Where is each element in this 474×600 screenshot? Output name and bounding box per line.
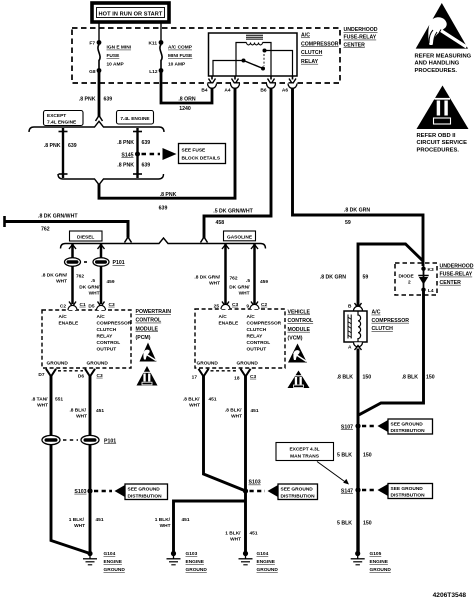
- svg-text:.5: .5: [246, 278, 250, 284]
- wire .8 DK GRN/WHT 762 (diesel branch to PCM C2): [41, 244, 84, 305]
- svg-text:K11: K11: [148, 41, 157, 47]
- svg-text:ENGINE: ENGINE: [186, 559, 205, 565]
- svg-text:.8 BLK: .8 BLK: [337, 375, 354, 381]
- svg-text:SEE FUSE: SEE FUSE: [182, 147, 207, 153]
- svg-text:.5: .5: [91, 278, 95, 284]
- svg-text:C3: C3: [232, 302, 238, 308]
- VCM pin 18 (connector C3): [234, 369, 256, 382]
- svg-text:VEHICLE: VEHICLE: [288, 310, 311, 316]
- VCM inner label A/C COMPRESSOR CLUTCH RELAY CONTROL OUTPUT: [247, 314, 282, 353]
- svg-text:.8 BLK/: .8 BLK/: [69, 408, 86, 414]
- svg-text:451: 451: [209, 397, 217, 403]
- svg-text:ENGINE: ENGINE: [257, 559, 276, 565]
- svg-text:CENTER: CENTER: [440, 280, 462, 286]
- svg-text:ENABLE: ENABLE: [59, 321, 80, 327]
- wire branch .8 DK GRN 59 to compressor clutch: [320, 244, 423, 307]
- splice S107: [341, 423, 361, 430]
- svg-text:FUSE: FUSE: [107, 53, 121, 59]
- svg-text:B: B: [348, 303, 352, 309]
- splice S103 (left): [74, 488, 92, 494]
- svg-text:SEE GROUND: SEE GROUND: [281, 487, 314, 493]
- dashed link between PCM ground pins: [58, 370, 83, 372]
- svg-text:.8 DK GRN/WHT: .8 DK GRN/WHT: [38, 214, 78, 220]
- svg-text:SEE GROUND: SEE GROUND: [391, 421, 424, 427]
- svg-text:451: 451: [251, 408, 259, 414]
- svg-text:P101: P101: [104, 438, 116, 444]
- svg-text:POWERTRAIN: POWERTRAIN: [136, 309, 172, 315]
- svg-text:UNDERHOOD: UNDERHOOD: [440, 264, 474, 270]
- svg-text:GROUND: GROUND: [186, 567, 208, 573]
- svg-text:GROUND: GROUND: [370, 567, 392, 573]
- fuse K11/L12 A/C COMP MINI FUSE 10 AMP: [148, 40, 193, 75]
- svg-text:CONTROL: CONTROL: [288, 318, 314, 324]
- svg-text:CONTROL: CONTROL: [136, 318, 162, 324]
- svg-text:CLUTCH: CLUTCH: [372, 326, 394, 332]
- svg-text:18: 18: [234, 375, 240, 381]
- wire 1 BLK/WHT 451 (S103 branch to G103): [155, 501, 246, 554]
- svg-text:150: 150: [363, 375, 372, 381]
- svg-text:D5: D5: [88, 304, 94, 310]
- label POWERTRAIN CONTROL MODULE (PCM): [136, 309, 172, 341]
- svg-text:DISTRIBUTION: DISTRIBUTION: [391, 493, 426, 499]
- label UNDERHOOD FUSE-RELAY CENTER (top): [344, 27, 378, 48]
- svg-text:1240: 1240: [179, 106, 191, 112]
- svg-text:WHT: WHT: [89, 291, 100, 297]
- svg-text:59: 59: [345, 220, 351, 226]
- svg-text:S103: S103: [249, 480, 261, 486]
- svg-text:150: 150: [363, 520, 372, 526]
- branch wire .8 PNK 639 (except 7.4L): [44, 128, 77, 178]
- svg-text:17: 17: [192, 374, 198, 380]
- PCM dashed box: [42, 310, 131, 368]
- label VEHICLE CONTROL MODULE (VCM): [288, 310, 314, 342]
- svg-text:COMPRESSOR: COMPRESSOR: [301, 41, 339, 47]
- svg-text:WHT: WHT: [230, 537, 241, 543]
- wire .8 TAN/WHT 551 (PCM D7 down): [31, 376, 90, 554]
- wire .8 ORN 1240 (fuse L12 to relay B4): [161, 71, 212, 113]
- option box EXCEPT 7.4L ENGINE: [44, 111, 84, 126]
- svg-text:DK GRN/: DK GRN/: [229, 285, 250, 291]
- label UNDERHOOD FUSE-RELAY CENTER (diode): [440, 264, 474, 286]
- svg-text:CLUTCH: CLUTCH: [247, 327, 267, 333]
- callout SEE GROUND DISTRIBUTION (S107): [362, 419, 433, 434]
- svg-text:10 AMP: 10 AMP: [168, 62, 186, 68]
- svg-text:762: 762: [230, 276, 238, 282]
- wire 5 BLK 150 (S147 to G105): [337, 490, 372, 553]
- connector P101 (upper pair): [65, 258, 125, 267]
- svg-text:.8 PNK: .8 PNK: [79, 97, 96, 103]
- callout SEE GROUND DISTRIBUTION (S147): [362, 484, 433, 499]
- ground G104 ENGINE GROUND (left): [83, 551, 125, 573]
- svg-text:CONTROL: CONTROL: [247, 340, 271, 346]
- wire .8 BLK/WHT 451 (VCM 18 to S103 mid): [225, 376, 259, 554]
- relay U1 A/C COMPRESSOR CLUTCH RELAY box: [209, 33, 298, 76]
- pointer arrow to S147: [317, 462, 349, 485]
- svg-text:.8 PNK: .8 PNK: [160, 192, 177, 198]
- splice S147: [341, 487, 361, 494]
- svg-text:RELAY: RELAY: [247, 334, 264, 340]
- ESD handling triangle (top right): [416, 3, 468, 49]
- svg-text:551: 551: [55, 397, 63, 403]
- svg-text:S147: S147: [341, 488, 353, 494]
- svg-text:GROUND: GROUND: [237, 361, 259, 367]
- svg-text:GROUND: GROUND: [47, 361, 69, 367]
- wire .8 PNK 639 (merge to relay pin A4): [99, 88, 235, 212]
- svg-text:639: 639: [104, 97, 113, 103]
- relay coil: [236, 35, 271, 76]
- svg-text:B4: B4: [201, 88, 207, 94]
- svg-text:ENABLE: ENABLE: [219, 321, 240, 327]
- svg-text:GROUND: GROUND: [104, 567, 126, 573]
- svg-text:DISTRIBUTION: DISTRIBUTION: [391, 428, 426, 434]
- svg-text:G105: G105: [370, 551, 382, 557]
- svg-text:.8 BLK: .8 BLK: [402, 375, 419, 381]
- svg-text:.8 TAN/: .8 TAN/: [31, 397, 48, 403]
- svg-text:GROUND: GROUND: [197, 361, 219, 367]
- svg-text:.8 DK GRN/: .8 DK GRN/: [194, 275, 220, 281]
- splice S103 (mid): [243, 480, 261, 494]
- svg-text:639: 639: [68, 143, 77, 149]
- svg-text:MAN TRANS: MAN TRANS: [290, 453, 320, 459]
- svg-text:REFER OBD II: REFER OBD II: [417, 133, 456, 139]
- svg-text:.8 DK GRN/: .8 DK GRN/: [41, 273, 67, 279]
- svg-text:S107: S107: [341, 424, 353, 430]
- svg-text:D6: D6: [78, 373, 84, 379]
- power source box HOT IN RUN OR START: [92, 3, 169, 22]
- PCM pin C2 (connector C1): [60, 302, 86, 311]
- option box EXCEPT 4.3L MAN TRANS: [276, 443, 334, 461]
- svg-text:150: 150: [363, 452, 372, 458]
- svg-text:DISTRIBUTION: DISTRIBUTION: [281, 493, 316, 499]
- svg-text:C3: C3: [109, 302, 115, 308]
- svg-text:CONTROL: CONTROL: [97, 340, 121, 346]
- VCM pin 9 (connector C2): [246, 302, 267, 310]
- wire .8 DK GRN/WHT 762 (gasoline branch to VCM 25): [194, 244, 237, 305]
- svg-text:COMPRESSOR: COMPRESSOR: [97, 321, 132, 327]
- svg-text:451: 451: [96, 517, 104, 523]
- svg-text:.8 PNK: .8 PNK: [44, 143, 61, 149]
- wire: feed to fuse F7: [98, 22, 100, 42]
- svg-text:UNDERHOOD: UNDERHOOD: [344, 27, 378, 33]
- svg-text:G8: G8: [89, 69, 96, 75]
- wire .8 BLK/WHT 451 (PCM D6 down to S103): [69, 376, 104, 554]
- svg-text:G104: G104: [104, 551, 116, 557]
- merge bracket (engine options): [58, 174, 164, 185]
- svg-text:FUSE-RELAY: FUSE-RELAY: [440, 272, 473, 278]
- svg-text:762: 762: [76, 274, 84, 280]
- svg-text:.8 PNK: .8 PNK: [117, 163, 134, 169]
- svg-text:639: 639: [142, 140, 151, 146]
- svg-text:10 AMP: 10 AMP: [107, 62, 125, 68]
- wire .8 BLK 150 (compressor A to S107): [337, 349, 372, 427]
- ESD warning triangle (VCM): [288, 344, 307, 363]
- svg-text:S103: S103: [74, 489, 86, 495]
- VCM dashed box: [195, 309, 285, 368]
- svg-text:WHT: WHT: [231, 414, 242, 420]
- svg-text:BLOCK DETAILS: BLOCK DETAILS: [182, 155, 221, 161]
- VCM pin 17: [192, 369, 209, 381]
- svg-text:A/C: A/C: [301, 33, 310, 39]
- svg-text:(VCM): (VCM): [288, 336, 303, 342]
- svg-text:WHT: WHT: [37, 403, 48, 409]
- svg-text:CENTER: CENTER: [344, 42, 366, 48]
- svg-text:DISTRIBUTION: DISTRIBUTION: [128, 493, 163, 499]
- svg-text:EXCEPT 4.3L: EXCEPT 4.3L: [289, 446, 319, 452]
- svg-text:IGN E MINI: IGN E MINI: [107, 45, 132, 51]
- svg-text:A/C: A/C: [219, 314, 228, 320]
- svg-text:1 BLK/: 1 BLK/: [155, 517, 171, 523]
- svg-text:F7: F7: [89, 41, 95, 47]
- label A/C COMPRESSOR CLUTCH: [372, 310, 410, 332]
- ground G104 ENGINE GROUND (mid): [239, 551, 279, 573]
- svg-text:ENGINE: ENGINE: [370, 559, 389, 565]
- svg-text:A4: A4: [224, 88, 230, 94]
- svg-text:C3: C3: [97, 373, 103, 379]
- svg-text:639: 639: [142, 163, 151, 169]
- svg-text:EXCEPT: EXCEPT: [47, 113, 66, 119]
- callout SEE GROUND DISTRIBUTION (S103 mid): [250, 484, 318, 500]
- wire .5 DK GRN/WHT 459 (diesel branch to PCM D5): [79, 244, 115, 305]
- svg-text:L4: L4: [428, 288, 434, 294]
- svg-text:639: 639: [159, 206, 168, 212]
- underhood fuse-relay center dashed box (top): [72, 28, 340, 83]
- relay switch contacts: [213, 49, 293, 77]
- dashed link between VCM ground pins: [211, 370, 239, 372]
- relay pin B6: [260, 76, 275, 94]
- svg-text:A/C: A/C: [372, 310, 381, 316]
- svg-text:25: 25: [214, 304, 220, 310]
- svg-text:FUSE-RELAY: FUSE-RELAY: [344, 35, 377, 41]
- svg-text:451: 451: [250, 531, 258, 537]
- label A/C COMPRESSOR CLUTCH RELAY: [301, 33, 339, 65]
- svg-text:C3: C3: [250, 374, 256, 380]
- svg-text:4206T3548: 4206T3548: [433, 592, 467, 599]
- wire .8 PNK 639 (fuse G8 down to engine split): [79, 71, 113, 122]
- svg-text:DIESEL: DIESEL: [77, 235, 94, 241]
- relay pin A4: [224, 76, 239, 94]
- PCM pin D6 (connector C3): [78, 369, 103, 380]
- VCM inner label A/C ENABLE: [219, 314, 240, 327]
- relay pin A6: [282, 76, 297, 94]
- svg-text:CIRCUIT SERVICE: CIRCUIT SERVICE: [417, 140, 468, 146]
- svg-text:C2: C2: [60, 304, 66, 310]
- svg-text:451: 451: [182, 517, 190, 523]
- svg-text:G104: G104: [257, 551, 269, 557]
- PCM pin D7: [38, 369, 56, 378]
- svg-text:B6: B6: [260, 88, 266, 94]
- connector P101 (lower pair): [42, 435, 116, 444]
- relay pin B4: [201, 76, 216, 94]
- svg-text:WHT: WHT: [239, 291, 250, 297]
- svg-text:PROCEDURES.: PROCEDURES.: [417, 147, 460, 153]
- svg-text:AND HANDLING: AND HANDLING: [415, 61, 460, 67]
- svg-text:.8 DK GRN: .8 DK GRN: [320, 275, 346, 281]
- ground G105 ENGINE GROUND: [351, 551, 392, 573]
- svg-text:OUTPUT: OUTPUT: [247, 347, 267, 353]
- svg-text:SEE GROUND: SEE GROUND: [128, 487, 161, 493]
- svg-text:WHT: WHT: [74, 523, 85, 529]
- svg-text:RELAY: RELAY: [301, 59, 319, 65]
- svg-text:.8 ORN: .8 ORN: [178, 96, 196, 102]
- diesel/gasoline option bracket: [61, 238, 266, 249]
- svg-text:459: 459: [260, 279, 268, 285]
- wire .5 DK GRN/WHT 459 (gasoline branch to VCM 9): [229, 244, 268, 305]
- fuse F7/G8 IGN E MINI FUSE 10 AMP: [89, 40, 132, 75]
- ESD warning triangle (PCM): [140, 343, 157, 362]
- svg-text:G103: G103: [186, 551, 198, 557]
- OBD II triangle (VCM): [288, 371, 310, 389]
- diode 2: [399, 266, 434, 294]
- svg-text:5 BLK: 5 BLK: [337, 452, 352, 458]
- svg-text:.8 PNK: .8 PNK: [117, 140, 134, 146]
- branch wire .8 PNK 639 with splice S145 (7.4L): [117, 128, 150, 178]
- callout SEE FUSE BLOCK DETAILS: [142, 144, 226, 164]
- svg-text:.8 BLK/: .8 BLK/: [183, 397, 200, 403]
- svg-text:GROUND: GROUND: [257, 567, 279, 573]
- svg-text:1 BLK/: 1 BLK/: [225, 531, 241, 537]
- svg-text:MODULE: MODULE: [288, 327, 311, 333]
- wire 1 BLK/WHT 451 (S103 to G104 mid): [225, 531, 258, 543]
- label REFER MEASURING AND HANDLING PROCEDURES.: [415, 54, 472, 74]
- wire .8 BLK 150 (diode L4 to S107): [359, 290, 435, 415]
- svg-text:A/C COMP: A/C COMP: [168, 45, 193, 51]
- svg-text:5 BLK: 5 BLK: [337, 520, 352, 526]
- svg-text:K3: K3: [428, 267, 434, 273]
- svg-text:COMPRESSOR: COMPRESSOR: [372, 318, 410, 324]
- svg-text:WHT: WHT: [189, 403, 200, 409]
- svg-text:WHT: WHT: [209, 281, 220, 287]
- svg-text:GROUND: GROUND: [87, 361, 109, 367]
- svg-text:1 BLK/: 1 BLK/: [69, 517, 85, 523]
- svg-text:A6: A6: [282, 88, 288, 94]
- underhood fuse-relay center dashed box (diode): [395, 263, 437, 295]
- svg-text:A/C: A/C: [97, 314, 106, 320]
- svg-text:7.4L ENGINE: 7.4L ENGINE: [47, 119, 77, 125]
- svg-text:WHT: WHT: [56, 279, 67, 285]
- split bracket (engine options): [29, 121, 164, 132]
- svg-text:458: 458: [216, 220, 225, 226]
- svg-text:OBD: OBD: [438, 119, 447, 124]
- option box GASOLINE: [224, 231, 256, 241]
- option box DIESEL: [70, 231, 103, 241]
- svg-text:DK GRN/: DK GRN/: [79, 285, 100, 291]
- PCM GROUND labels: [47, 361, 109, 367]
- wire: feed to fuse K11: [160, 22, 162, 42]
- svg-text:P101: P101: [113, 260, 125, 266]
- VCM GROUND labels: [197, 361, 259, 367]
- svg-text:HOT IN RUN OR START: HOT IN RUN OR START: [99, 12, 163, 18]
- svg-text:COMPRESSOR: COMPRESSOR: [247, 321, 282, 327]
- svg-text:762: 762: [41, 227, 50, 233]
- svg-text:PROCEDURES.: PROCEDURES.: [415, 68, 458, 74]
- wire 1 BLK/WHT 451 (S103 to G104 left): [69, 517, 104, 529]
- svg-text:RELAY: RELAY: [97, 334, 114, 340]
- svg-text:WHT: WHT: [160, 523, 171, 529]
- svg-text:A/C: A/C: [247, 314, 256, 320]
- svg-text:C2: C2: [261, 302, 267, 308]
- svg-text:L12: L12: [149, 69, 158, 75]
- svg-text:7.4L ENGINE: 7.4L ENGINE: [120, 116, 150, 122]
- wire .8 DK GRN/WHT 762 (from off-page left): [5, 214, 132, 243]
- svg-text:D7: D7: [38, 372, 44, 378]
- svg-text:A: A: [348, 345, 352, 351]
- svg-text:REFER MEASURING: REFER MEASURING: [415, 54, 472, 60]
- svg-text:S145: S145: [121, 152, 133, 158]
- OBD II triangle (top right): [417, 86, 469, 130]
- label REFER OBD II CIRCUIT SERVICE PROCEDURES.: [417, 133, 468, 153]
- svg-text:SEE GROUND: SEE GROUND: [391, 486, 424, 492]
- option box 7.4L ENGINE: [117, 111, 154, 125]
- PCM inner label A/C ENABLE: [59, 314, 80, 327]
- svg-text:C1: C1: [80, 302, 86, 308]
- wire .8 DK GRN 59 (relay A6 to diode and clutch): [293, 88, 424, 266]
- svg-text:CLUTCH: CLUTCH: [301, 50, 323, 56]
- svg-text:.8 BLK/: .8 BLK/: [225, 408, 242, 414]
- svg-text:WHT: WHT: [76, 414, 87, 420]
- A/C compressor clutch coil: [344, 303, 367, 351]
- svg-text:.8 DK GRN: .8 DK GRN: [344, 208, 370, 214]
- svg-text:459: 459: [107, 279, 115, 285]
- OBD II triangle (PCM): [137, 366, 158, 386]
- callout SEE GROUND DISTRIBUTION (S103 left): [94, 484, 168, 500]
- svg-text:9: 9: [246, 304, 249, 310]
- PCM pin D5 (connector C3): [88, 302, 115, 311]
- splice S145: [121, 152, 140, 159]
- wire .8 BLK/WHT 451 (VCM 17 to S103 mid): [183, 376, 245, 491]
- svg-text:59: 59: [363, 275, 369, 281]
- svg-text:150: 150: [426, 375, 435, 381]
- svg-text:A/C: A/C: [59, 314, 68, 320]
- wire 5 BLK 150 (S107 to S147): [337, 426, 372, 490]
- svg-text:GASOLINE: GASOLINE: [227, 234, 253, 240]
- ground G103 ENGINE GROUND: [167, 551, 208, 573]
- VCM pin 25 (connector C3): [214, 302, 239, 310]
- wire .5 DK GRN/WHT 458 (relay B6 down to gasoline split): [201, 88, 272, 243]
- svg-text:MODULE: MODULE: [136, 326, 159, 332]
- PCM inner label A/C COMPRESSOR CLUTCH RELAY CONTROL OUTPUT: [97, 314, 132, 353]
- svg-text:CLUTCH: CLUTCH: [97, 327, 117, 333]
- svg-text:MINI FUSE: MINI FUSE: [168, 53, 193, 59]
- svg-text:DIODE: DIODE: [399, 274, 415, 280]
- svg-text:451: 451: [96, 408, 104, 414]
- svg-text:OUTPUT: OUTPUT: [97, 347, 117, 353]
- svg-text:.5 DK GRN/WHT: .5 DK GRN/WHT: [213, 209, 253, 215]
- svg-text:(PCM): (PCM): [136, 335, 151, 341]
- svg-text:2: 2: [408, 280, 411, 286]
- svg-text:ENGINE: ENGINE: [104, 559, 123, 565]
